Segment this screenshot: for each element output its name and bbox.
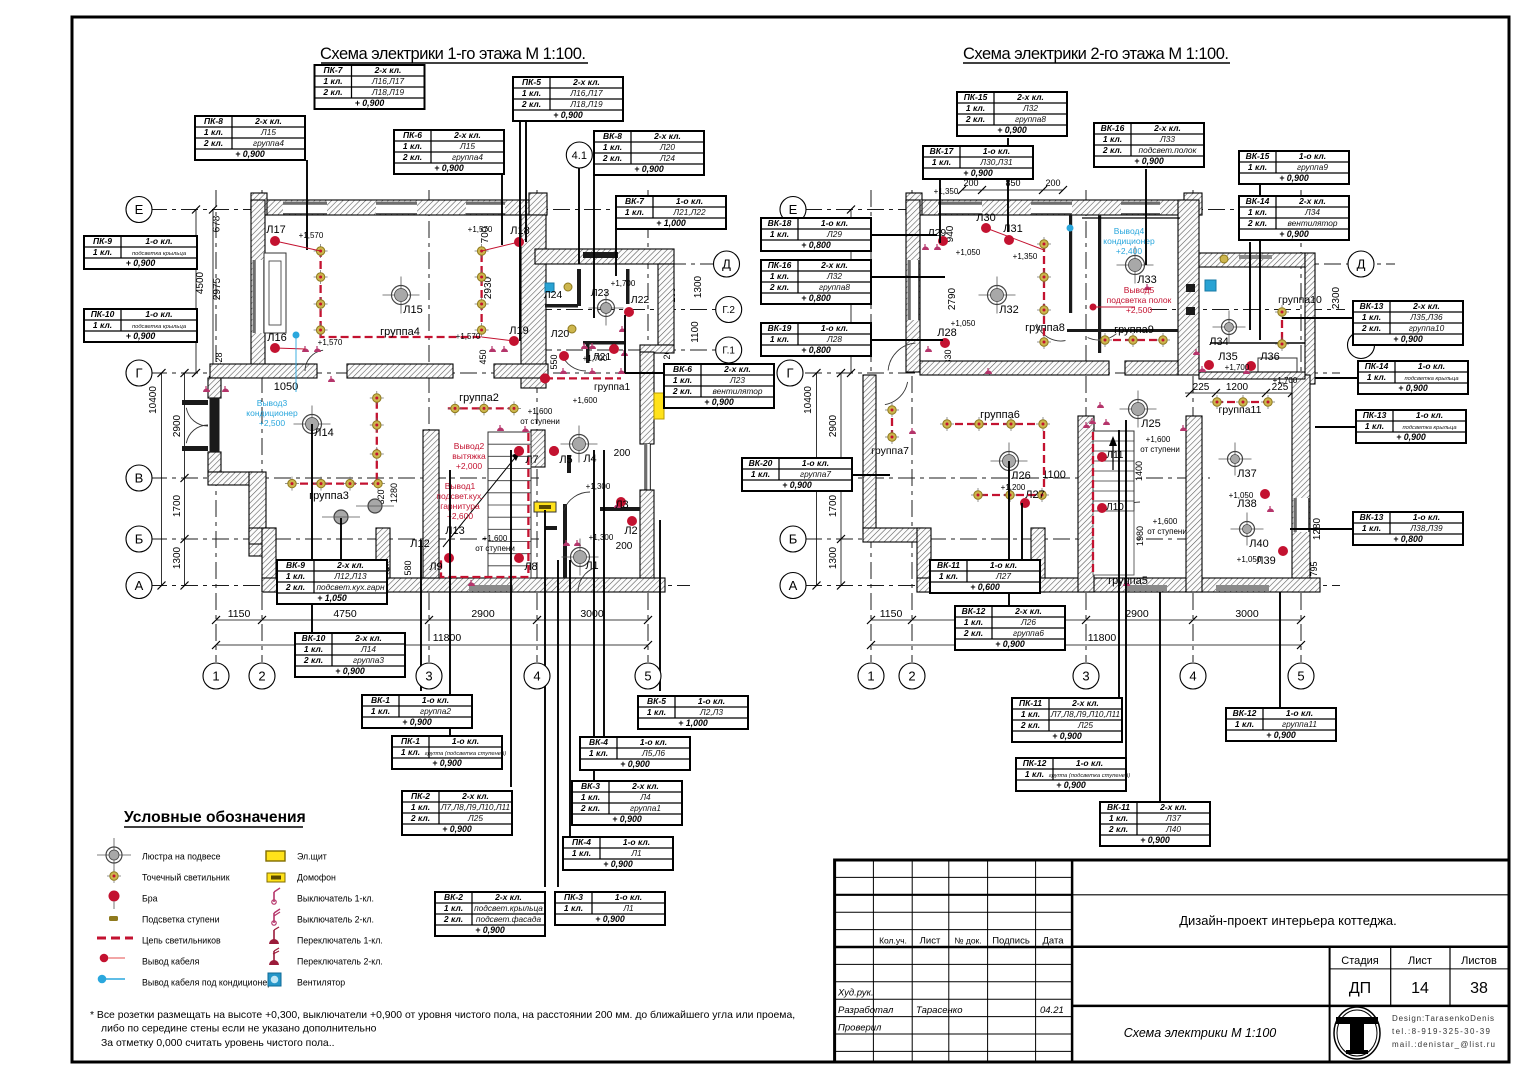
svg-text:Л34: Л34 bbox=[1209, 336, 1228, 348]
svg-text:ВК-12: ВК-12 bbox=[962, 606, 986, 616]
svg-text:+ 0,900: + 0,900 bbox=[1398, 383, 1428, 393]
svg-text:группа7: группа7 bbox=[800, 469, 831, 479]
svg-text:Л12: Л12 bbox=[410, 538, 429, 550]
svg-text:1300: 1300 bbox=[172, 546, 183, 569]
svg-text:Стадия: Стадия bbox=[1341, 955, 1379, 967]
svg-text:А: А bbox=[135, 578, 144, 593]
svg-text:+ 0,900: + 0,900 bbox=[432, 758, 462, 768]
svg-text:2 кл.: 2 кл. bbox=[303, 655, 323, 665]
svg-text:+ 0,800: + 0,800 bbox=[801, 240, 831, 250]
svg-text:Л25: Л25 bbox=[467, 813, 483, 823]
svg-text:Л10: Л10 bbox=[1106, 502, 1124, 513]
svg-text:Л31: Л31 bbox=[1003, 223, 1022, 235]
svg-text:+ 0,900: + 0,900 bbox=[1052, 731, 1082, 741]
svg-text:14: 14 bbox=[1411, 980, 1429, 997]
svg-text:D e s i g n : T a r a s e n k: D e s i g n : T a r a s e n k o D e n i … bbox=[1392, 1014, 1494, 1023]
svg-text:Худ.рук.: Худ.рук. bbox=[837, 988, 874, 999]
svg-text:группа2: группа2 bbox=[459, 392, 499, 404]
svg-text:Л18,Л19: Л18,Л19 bbox=[569, 99, 603, 109]
svg-text:группа8: группа8 bbox=[1015, 114, 1046, 124]
svg-text:+ 1,000: + 1,000 bbox=[656, 218, 686, 228]
svg-text:+1,600: +1,600 bbox=[528, 407, 553, 416]
svg-text:Д: Д bbox=[1357, 257, 1366, 272]
svg-text:ВК-12: ВК-12 bbox=[1233, 708, 1257, 718]
svg-text:+ 0,900: + 0,900 bbox=[355, 98, 385, 108]
svg-text:группа6: группа6 bbox=[1013, 628, 1044, 638]
svg-text:2300: 2300 bbox=[1331, 286, 1342, 309]
svg-text:225: 225 bbox=[1193, 382, 1210, 393]
svg-text:+1,050: +1,050 bbox=[956, 248, 981, 257]
svg-text:678: 678 bbox=[212, 215, 223, 232]
svg-text:1: 1 bbox=[867, 669, 874, 684]
svg-text:1700: 1700 bbox=[828, 494, 839, 517]
svg-text:от ступени: от ступени bbox=[1147, 527, 1187, 536]
svg-text:2-х кл.: 2-х кл. bbox=[461, 791, 489, 801]
svg-text:2-х кл.: 2-х кл. bbox=[336, 560, 364, 570]
svg-text:Л35: Л35 bbox=[1218, 351, 1237, 363]
svg-text:2 кл.: 2 кл. bbox=[963, 628, 983, 638]
svg-text:от ступени: от ступени bbox=[520, 417, 560, 426]
svg-text:1-о кл.: 1-о кл. bbox=[983, 146, 1010, 156]
svg-text:1-о кл.: 1-о кл. bbox=[821, 218, 848, 228]
svg-text:1980: 1980 bbox=[1135, 526, 1145, 546]
svg-text:+1,600: +1,600 bbox=[483, 534, 508, 543]
svg-text:1 кл.: 1 кл. bbox=[603, 142, 622, 152]
svg-text:подсветка крыльца: подсветка крыльца bbox=[1402, 425, 1457, 431]
svg-text:ВК-6: ВК-6 bbox=[673, 364, 692, 374]
svg-text:Г: Г bbox=[786, 366, 793, 381]
svg-text:11800: 11800 bbox=[1088, 632, 1117, 644]
svg-text:Л11: Л11 bbox=[1107, 450, 1124, 461]
svg-text:1-о кл.: 1-о кл. bbox=[698, 696, 725, 706]
svg-text:ВК-1: ВК-1 bbox=[371, 695, 390, 705]
svg-text:1 кл.: 1 кл. bbox=[93, 247, 112, 257]
svg-text:2 кл.: 2 кл. bbox=[443, 914, 463, 924]
svg-text:+ 0,900: + 0,900 bbox=[235, 149, 265, 159]
svg-text:подсвет.кух.гарн: подсвет.кух.гарн bbox=[316, 582, 384, 592]
svg-text:Е: Е bbox=[789, 202, 798, 217]
svg-text:№ док.: № док. bbox=[954, 936, 981, 946]
svg-text:2-х кл.: 2-х кл. bbox=[354, 633, 382, 643]
svg-text:2-х кл.: 2-х кл. bbox=[254, 116, 282, 126]
svg-text:1 кл.: 1 кл. bbox=[751, 469, 770, 479]
svg-text:подсветка крыльца: подсветка крыльца bbox=[1404, 376, 1459, 382]
svg-text:1150: 1150 bbox=[228, 608, 251, 620]
svg-text:+1,300: +1,300 bbox=[586, 482, 611, 491]
svg-text:ВК-11: ВК-11 bbox=[937, 560, 960, 570]
svg-text:+ 0,900: + 0,900 bbox=[553, 110, 583, 120]
svg-text:2975: 2975 bbox=[212, 277, 223, 300]
svg-text:ВК-4: ВК-4 bbox=[589, 737, 608, 747]
svg-text:2 кл.: 2 кл. bbox=[1361, 323, 1381, 333]
svg-text:Вывод4: Вывод4 bbox=[1114, 226, 1145, 236]
svg-text:10400: 10400 bbox=[148, 386, 159, 414]
svg-text:1 кл.: 1 кл. bbox=[770, 334, 789, 344]
svg-text:Бра: Бра bbox=[142, 894, 158, 904]
svg-text:вентилятор: вентилятор bbox=[1287, 218, 1337, 228]
svg-text:Вентилятор: Вентилятор bbox=[297, 978, 345, 988]
svg-text:+1,700: +1,700 bbox=[583, 354, 608, 363]
svg-text:ВК-8: ВК-8 bbox=[603, 131, 622, 141]
svg-text:Л20: Л20 bbox=[659, 142, 675, 152]
svg-text:Подпись: Подпись bbox=[992, 936, 1030, 947]
svg-text:+1,600: +1,600 bbox=[573, 396, 598, 405]
svg-text:1-о кл.: 1-о кл. bbox=[422, 695, 449, 705]
svg-text:+ 0,900: + 0,900 bbox=[475, 925, 505, 935]
svg-text:Л17: Л17 bbox=[266, 224, 285, 236]
svg-text:2 кл.: 2 кл. bbox=[672, 386, 692, 396]
svg-text:группа1: группа1 bbox=[594, 382, 630, 393]
svg-text:4: 4 bbox=[1189, 669, 1196, 684]
svg-text:Л37: Л37 bbox=[1165, 813, 1181, 823]
svg-text:2 кл.: 2 кл. bbox=[521, 99, 541, 109]
svg-text:1 кл.: 1 кл. bbox=[770, 271, 789, 281]
svg-text:1 кл.: 1 кл. bbox=[1235, 719, 1254, 729]
svg-text:1-о кл.: 1-о кл. bbox=[623, 837, 650, 847]
svg-text:ВК-2: ВК-2 bbox=[444, 892, 463, 902]
svg-text:2-х кл.: 2-х кл. bbox=[1412, 301, 1440, 311]
svg-text:+ 0,900: + 0,900 bbox=[1056, 780, 1086, 790]
svg-text:Л15: Л15 bbox=[403, 304, 422, 316]
svg-text:Л25: Л25 bbox=[1077, 720, 1093, 730]
svg-text:m a i l . : d e n i s t a r _: m a i l . : d e n i s t a r _ @ l i s t … bbox=[1392, 1040, 1495, 1049]
svg-text:ВК-9: ВК-9 bbox=[286, 560, 305, 570]
svg-text:1700: 1700 bbox=[172, 494, 183, 517]
svg-text:За отметку 0,000 считать урове: За отметку 0,000 считать уровень чистого… bbox=[101, 1038, 334, 1049]
svg-text:+ 0,900: + 0,900 bbox=[595, 914, 625, 924]
svg-text:ПК-12: ПК-12 bbox=[1023, 758, 1047, 768]
svg-text:2-х кл.: 2-х кл. bbox=[1014, 606, 1042, 616]
svg-text:Л13: Л13 bbox=[445, 525, 464, 537]
svg-text:1 кл.: 1 кл. bbox=[93, 320, 112, 330]
svg-text:1 кл.: 1 кл. bbox=[1025, 769, 1044, 779]
svg-text:+ 0,900: + 0,900 bbox=[997, 125, 1027, 135]
svg-text:1 кл.: 1 кл. bbox=[770, 229, 789, 239]
svg-text:1 кл.: 1 кл. bbox=[286, 571, 305, 581]
svg-text:ВК-16: ВК-16 bbox=[1101, 123, 1125, 133]
svg-text:группа7: группа7 bbox=[871, 445, 909, 457]
svg-text:2-х кл.: 2-х кл. bbox=[820, 260, 848, 270]
svg-text:2 кл.: 2 кл. bbox=[322, 87, 342, 97]
svg-text:Л9: Л9 bbox=[429, 561, 442, 573]
svg-text:2-х кл.: 2-х кл. bbox=[374, 65, 402, 75]
svg-text:2 кл.: 2 кл. bbox=[1247, 218, 1267, 228]
svg-text:1 кл.: 1 кл. bbox=[401, 747, 420, 757]
svg-text:либо по середине стены если не: либо по середине стены если не указано д… bbox=[101, 1023, 377, 1035]
svg-text:группа3: группа3 bbox=[309, 490, 349, 502]
svg-text:Л30,Л31: Л30,Л31 bbox=[979, 157, 1012, 167]
svg-text:Л35,Л36: Л35,Л36 bbox=[1409, 312, 1443, 322]
svg-text:+1,200: +1,200 bbox=[1001, 483, 1026, 492]
svg-text:04.21: 04.21 bbox=[1040, 1005, 1064, 1016]
svg-text:2 кл.: 2 кл. bbox=[203, 138, 223, 148]
svg-text:Л32: Л32 bbox=[1022, 103, 1038, 113]
svg-text:1 кл.: 1 кл. bbox=[932, 157, 951, 167]
svg-text:1100: 1100 bbox=[1042, 469, 1066, 481]
svg-text:2900: 2900 bbox=[828, 414, 839, 437]
svg-text:Тарасенко: Тарасенко bbox=[916, 1005, 962, 1016]
svg-text:Л7: Л7 bbox=[525, 454, 538, 466]
svg-text:1 кл.: 1 кл. bbox=[1248, 207, 1267, 217]
svg-text:+ 0,800: + 0,800 bbox=[801, 293, 831, 303]
svg-text:ВК-20: ВК-20 bbox=[749, 458, 773, 468]
svg-text:1 кл.: 1 кл. bbox=[966, 103, 985, 113]
svg-text:2 кл.: 2 кл. bbox=[1108, 824, 1128, 834]
svg-text:1-о кл.: 1-о кл. bbox=[145, 236, 172, 246]
svg-text:группа6: группа6 bbox=[980, 409, 1020, 421]
svg-text:11800: 11800 bbox=[433, 632, 462, 644]
svg-text:Л36: Л36 bbox=[1260, 351, 1279, 363]
svg-text:1300: 1300 bbox=[828, 546, 839, 569]
svg-text:Л32: Л32 bbox=[999, 304, 1018, 316]
svg-text:Л27: Л27 bbox=[1025, 489, 1044, 501]
svg-text:2 кл.: 2 кл. bbox=[402, 152, 422, 162]
svg-text:Л34: Л34 bbox=[1304, 207, 1320, 217]
svg-text:+1,700: +1,700 bbox=[1273, 376, 1298, 385]
svg-text:1 кл.: 1 кл. bbox=[1109, 813, 1128, 823]
svg-text:Л2,Л3: Л2,Л3 bbox=[699, 707, 723, 717]
svg-text:1 кл.: 1 кл. bbox=[204, 127, 223, 137]
svg-text:+1,700: +1,700 bbox=[611, 279, 636, 288]
svg-text:+ 0,900: + 0,900 bbox=[1396, 432, 1426, 442]
svg-text:+1,050: +1,050 bbox=[1237, 555, 1262, 564]
svg-text:1-о кл.: 1-о кл. bbox=[640, 737, 667, 747]
svg-text:+2,400: +2,400 bbox=[1116, 246, 1143, 256]
svg-text:1-о кл.: 1-о кл. bbox=[1418, 361, 1445, 371]
svg-text:1-о кл.: 1-о кл. bbox=[1299, 151, 1326, 161]
svg-text:группа10: группа10 bbox=[1278, 294, 1322, 306]
svg-text:Г.2: Г.2 bbox=[722, 305, 735, 316]
svg-text:1280: 1280 bbox=[389, 483, 399, 503]
svg-text:1 кл.: 1 кл. bbox=[564, 903, 583, 913]
svg-text:Схема электрики М 1:100: Схема электрики М 1:100 bbox=[1124, 1026, 1277, 1040]
svg-text:Л15: Л15 bbox=[260, 127, 276, 137]
svg-text:группа9: группа9 bbox=[1114, 324, 1154, 336]
svg-text:подсвет.фасада: подсвет.фасада bbox=[476, 914, 542, 924]
svg-text:Разработал: Разработал bbox=[838, 1005, 894, 1016]
svg-text:Б: Б bbox=[789, 532, 798, 547]
svg-text:2-х кл.: 2-х кл. bbox=[1298, 196, 1326, 206]
svg-text:группа4: группа4 bbox=[253, 138, 284, 148]
svg-text:3000: 3000 bbox=[1235, 608, 1259, 620]
svg-text:ПК-4: ПК-4 bbox=[572, 837, 591, 847]
svg-text:2-х кл.: 2-х кл. bbox=[572, 77, 600, 87]
svg-text:Схема электрики 2-го этажа М 1: Схема электрики 2-го этажа М 1:100. bbox=[963, 45, 1229, 63]
svg-text:1 кл.: 1 кл. bbox=[1248, 162, 1267, 172]
svg-text:1 кл.: 1 кл. bbox=[625, 207, 644, 217]
svg-text:1 кл.: 1 кл. bbox=[1362, 312, 1381, 322]
svg-text:3: 3 bbox=[1082, 669, 1089, 684]
svg-text:Переключатель 2-кл.: Переключатель 2-кл. bbox=[297, 957, 383, 967]
svg-text:1 кл.: 1 кл. bbox=[1362, 523, 1381, 533]
svg-text:1 кл.: 1 кл. bbox=[647, 707, 666, 717]
svg-text:+ 1,050: + 1,050 bbox=[317, 593, 347, 603]
svg-text:Л28: Л28 bbox=[937, 327, 956, 339]
svg-text:5: 5 bbox=[1297, 669, 1304, 684]
svg-text:1050: 1050 bbox=[274, 381, 298, 393]
svg-text:+ 0,900: + 0,900 bbox=[126, 258, 156, 268]
svg-text:200: 200 bbox=[616, 541, 633, 552]
svg-text:Лист: Лист bbox=[1408, 955, 1432, 967]
svg-text:Л5: Л5 bbox=[559, 454, 572, 466]
svg-text:ВК-13: ВК-13 bbox=[1360, 301, 1384, 311]
svg-text:2-х кл.: 2-х кл. bbox=[1016, 92, 1044, 102]
svg-text:Вывод5: Вывод5 bbox=[1124, 285, 1155, 295]
svg-text:+1,570: +1,570 bbox=[318, 338, 343, 347]
svg-text:подсветка крыльца: подсветка крыльца bbox=[132, 251, 187, 257]
svg-text:+ 0,900: + 0,900 bbox=[126, 331, 156, 341]
svg-text:ВК-18: ВК-18 bbox=[768, 218, 792, 228]
svg-text:1 кл.: 1 кл. bbox=[403, 141, 422, 151]
svg-text:2-х кл.: 2-х кл. bbox=[1153, 123, 1181, 133]
svg-text:Л40: Л40 bbox=[1249, 538, 1268, 550]
svg-text:+ 0,600: + 0,600 bbox=[970, 582, 1000, 592]
svg-text:2-х кл.: 2-х кл. bbox=[723, 364, 751, 374]
svg-text:ДП: ДП bbox=[1349, 980, 1371, 997]
svg-text:+ 0,900: + 0,900 bbox=[1279, 229, 1309, 239]
svg-text:1100: 1100 bbox=[690, 321, 701, 343]
svg-text:Л40: Л40 bbox=[1165, 824, 1181, 834]
svg-text:2-х кл.: 2-х кл. bbox=[494, 892, 522, 902]
svg-text:группа8: группа8 bbox=[819, 282, 850, 292]
svg-text:+ 0,800: + 0,800 bbox=[801, 345, 831, 355]
svg-text:Л26: Л26 bbox=[1011, 470, 1030, 482]
svg-text:t e l . : 8 - 9 1 9 - 3 2 5 -: t e l . : 8 - 9 1 9 - 3 2 5 - 3 0 - 3 9 bbox=[1392, 1027, 1491, 1036]
svg-text:Л7,Л8,Л9,Л10,Л11: Л7,Л8,Л9,Л10,Л11 bbox=[440, 802, 510, 812]
svg-text:ПК-14: ПК-14 bbox=[1365, 361, 1389, 371]
svg-text:2900: 2900 bbox=[1125, 608, 1149, 620]
svg-text:1 кл.: 1 кл. bbox=[444, 903, 463, 913]
svg-text:+ 0,900: + 0,900 bbox=[634, 164, 664, 174]
svg-text:А: А bbox=[789, 578, 798, 593]
svg-text:+ 0,900: + 0,900 bbox=[1140, 835, 1170, 845]
svg-text:Л21,Л22: Л21,Л22 bbox=[672, 207, 706, 217]
svg-text:+ 0,900: + 0,900 bbox=[442, 824, 472, 834]
svg-text:+ 0,900: + 0,900 bbox=[1266, 730, 1296, 740]
svg-text:2 кл.: 2 кл. bbox=[965, 114, 985, 124]
svg-text:200: 200 bbox=[1045, 178, 1060, 188]
svg-text:Вывод кабеля: Вывод кабеля bbox=[142, 957, 200, 967]
svg-text:ПК-8: ПК-8 bbox=[204, 116, 223, 126]
svg-text:+2,500: +2,500 bbox=[259, 418, 286, 428]
svg-text:+1,700: +1,700 bbox=[1225, 363, 1250, 372]
svg-text:2-х кл.: 2-х кл. bbox=[453, 130, 481, 140]
svg-text:Подсветка ступени: Подсветка ступени bbox=[142, 915, 220, 925]
svg-text:подсветка полок: подсветка полок bbox=[1107, 295, 1172, 305]
svg-text:Д: Д bbox=[722, 257, 731, 272]
svg-text:+1,050: +1,050 bbox=[951, 319, 976, 328]
svg-text:группа11: группа11 bbox=[1282, 719, 1317, 729]
svg-text:1 кл.: 1 кл. bbox=[1365, 421, 1384, 431]
svg-text:группа9: группа9 bbox=[1297, 162, 1328, 172]
svg-text:Л16,Л17: Л16,Л17 bbox=[569, 88, 603, 98]
svg-text:2 кл.: 2 кл. bbox=[1102, 145, 1122, 155]
svg-text:Л14: Л14 bbox=[360, 644, 376, 654]
svg-text:+ 0,900: + 0,900 bbox=[402, 717, 432, 727]
svg-text:Л24: Л24 bbox=[544, 289, 563, 301]
svg-text:Б: Б bbox=[135, 532, 144, 547]
svg-text:группа4: группа4 bbox=[380, 326, 420, 338]
svg-text:+1,570: +1,570 bbox=[299, 231, 324, 240]
svg-text:Л37: Л37 bbox=[1237, 468, 1256, 480]
svg-text:Цепь светильников: Цепь светильников bbox=[142, 936, 221, 946]
svg-text:3: 3 bbox=[425, 669, 432, 684]
svg-text:ВК-10: ВК-10 bbox=[302, 633, 326, 643]
svg-text:вентилятор: вентилятор bbox=[712, 386, 762, 396]
svg-text:Л20: Л20 bbox=[551, 328, 570, 340]
svg-text:Кол.уч.: Кол.уч. bbox=[879, 936, 907, 946]
svg-text:+ 0,900: + 0,900 bbox=[612, 814, 642, 824]
svg-text:1 кл.: 1 кл. bbox=[1021, 709, 1040, 719]
svg-text:гарнитура: гарнитура bbox=[440, 501, 480, 511]
svg-text:группа2: группа2 bbox=[420, 706, 451, 716]
svg-text:Люстра на подвесе: Люстра на подвесе bbox=[142, 852, 221, 862]
svg-text:2: 2 bbox=[258, 669, 265, 684]
svg-text:Л32: Л32 bbox=[826, 271, 842, 281]
svg-text:ВК-7: ВК-7 bbox=[625, 196, 645, 206]
svg-text:1 кл.: 1 кл. bbox=[581, 792, 600, 802]
svg-text:группа (подсветка ступеней): группа (подсветка ступеней) bbox=[1049, 772, 1130, 779]
svg-text:1 кл.: 1 кл. bbox=[304, 644, 323, 654]
svg-text:2900: 2900 bbox=[172, 414, 183, 437]
svg-text:1150: 1150 bbox=[880, 608, 903, 620]
svg-text:10400: 10400 bbox=[803, 386, 814, 414]
svg-text:2 кл.: 2 кл. bbox=[410, 813, 430, 823]
svg-text:+ 0,900: + 0,900 bbox=[335, 666, 365, 676]
svg-text:+ 0,900: + 0,900 bbox=[1134, 156, 1164, 166]
svg-text:Вывод кабеля под кондиционер: Вывод кабеля под кондиционер bbox=[142, 978, 272, 988]
svg-text:Вывод2: Вывод2 bbox=[454, 441, 485, 451]
svg-text:группа5: группа5 bbox=[1108, 575, 1148, 587]
svg-text:2-х кл.: 2-х кл. bbox=[1071, 698, 1099, 708]
svg-text:4: 4 bbox=[533, 669, 540, 684]
svg-text:Л24: Л24 bbox=[659, 153, 675, 163]
svg-text:+1,570: +1,570 bbox=[468, 225, 493, 234]
svg-text:1 кл.: 1 кл. bbox=[589, 748, 608, 758]
svg-text:ВК-5: ВК-5 bbox=[647, 696, 666, 706]
svg-text:1-о кл.: 1-о кл. bbox=[802, 458, 829, 468]
svg-text:+1,350: +1,350 bbox=[934, 187, 959, 196]
svg-text:Г: Г bbox=[135, 366, 142, 381]
svg-text:Л33: Л33 bbox=[1159, 134, 1175, 144]
svg-text:1-о кл.: 1-о кл. bbox=[1416, 410, 1443, 420]
svg-text:1 кл.: 1 кл. bbox=[1367, 372, 1386, 382]
svg-text:Выключатель 2-кл.: Выключатель 2-кл. bbox=[297, 915, 374, 925]
svg-text:ПК-7: ПК-7 bbox=[324, 65, 344, 75]
svg-text:от ступени: от ступени bbox=[1140, 445, 1180, 454]
svg-text:Л16: Л16 bbox=[267, 332, 286, 344]
svg-text:Л30: Л30 bbox=[976, 212, 995, 224]
svg-text:+1,600: +1,600 bbox=[1146, 435, 1171, 444]
svg-text:Л12,Л13: Л12,Л13 bbox=[333, 571, 367, 581]
svg-text:1-о кл.: 1-о кл. bbox=[1286, 708, 1313, 718]
svg-text:Л8: Л8 bbox=[524, 561, 537, 573]
svg-text:группа8: группа8 bbox=[1025, 322, 1065, 334]
svg-text:Л15: Л15 bbox=[459, 141, 475, 151]
svg-text:Л1: Л1 bbox=[622, 903, 633, 913]
svg-text:4500: 4500 bbox=[195, 271, 206, 294]
svg-text:+ 0,900: + 0,900 bbox=[995, 639, 1025, 649]
svg-text:+1,050: +1,050 bbox=[1229, 491, 1254, 500]
svg-text:1 кл.: 1 кл. bbox=[1103, 134, 1122, 144]
svg-text:+ 0,900: + 0,900 bbox=[782, 480, 812, 490]
svg-text:Дата: Дата bbox=[1042, 936, 1064, 947]
svg-text:ВК-15: ВК-15 bbox=[1246, 151, 1270, 161]
svg-text:Л7,Л8,Л9,Л10,Л11: Л7,Л8,Л9,Л10,Л11 bbox=[1050, 709, 1120, 719]
svg-text:Л19: Л19 bbox=[509, 325, 528, 337]
svg-text:2-х кл.: 2-х кл. bbox=[1159, 802, 1187, 812]
svg-text:* Все розетки размещать на выс: * Все розетки размещать на высоте +0,300… bbox=[90, 1009, 795, 1021]
